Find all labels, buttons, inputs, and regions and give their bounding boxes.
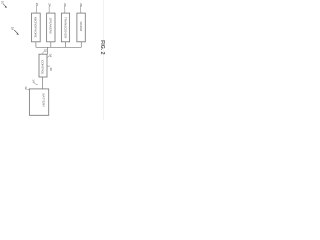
leader 22 <box>35 6 38 13</box>
box 26 (DISPLAY UNIT) <box>61 13 69 42</box>
node 10 (system arrow, top-left) <box>0 1 7 8</box>
leader 26 <box>64 6 66 13</box>
svg-text:32: 32 <box>44 49 48 53</box>
box 24 (SPEAKERS) <box>47 13 55 42</box>
wire: controller to battery <box>41 77 43 89</box>
svg-text:26: 26 <box>63 3 67 7</box>
svg-text:SPEAKERS: SPEAKERS <box>49 18 53 34</box>
wire: stub box24 to bus <box>50 42 52 48</box>
svg-text:28: 28 <box>79 3 83 7</box>
box 22 (MICROPHONE) <box>32 13 41 42</box>
wire: bus <box>36 46 81 48</box>
leader 14 <box>34 82 38 85</box>
svg-text:BATTERY: BATTERY <box>42 94 46 108</box>
svg-text:CONTROL: CONTROL <box>40 60 44 75</box>
leader 34 <box>47 56 49 58</box>
leader 36 <box>47 65 50 67</box>
box 28 (RADIO) <box>77 13 85 42</box>
svg-text:10: 10 <box>0 1 4 5</box>
svg-text:24: 24 <box>48 3 52 7</box>
leader 24 <box>48 6 50 13</box>
box 12 battery <box>29 89 48 115</box>
svg-text:18: 18 <box>11 27 15 31</box>
svg-text:34: 34 <box>48 54 52 58</box>
wire: bus drop to controller <box>46 47 48 54</box>
box 30 controller <box>39 54 47 77</box>
node 18 (arrow mark, left) <box>11 27 19 35</box>
svg-text:TRANSCEIVER: TRANSCEIVER <box>63 17 67 39</box>
svg-text:12: 12 <box>24 86 28 90</box>
wire: stub box28 to bus <box>80 42 82 48</box>
svg-text:RADIO: RADIO <box>79 22 83 32</box>
svg-text:36: 36 <box>49 68 53 72</box>
svg-text:FIG. 2: FIG. 2 <box>99 40 105 55</box>
wire: stub box22 to bus <box>35 42 37 48</box>
leader 28 <box>79 6 82 13</box>
leader 32 <box>42 51 45 53</box>
page fold line <box>102 0 104 120</box>
wire: stub box26 to bus <box>65 42 67 48</box>
svg-text:14: 14 <box>31 79 35 83</box>
svg-text:MICROPHONE: MICROPHONE <box>34 17 38 38</box>
svg-text:22: 22 <box>35 3 39 7</box>
leader 12 <box>27 88 29 91</box>
